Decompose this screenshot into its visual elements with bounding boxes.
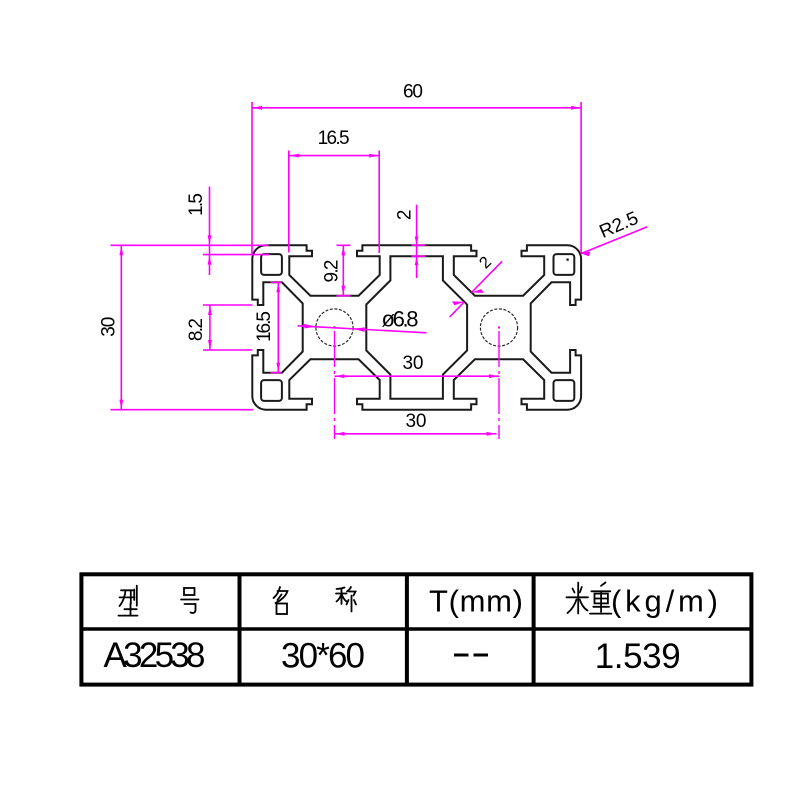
dim 16.5 top line [289, 155, 379, 157]
svg-text:2: 2 [395, 210, 416, 221]
table row2 dashes [454, 654, 488, 657]
svg-text:ø6.8: ø6.8 [382, 307, 419, 332]
arrow 30 left bottom [119, 400, 123, 409]
hanzi 称 [336, 587, 356, 612]
dim 1.5 line [209, 187, 211, 276]
hanzi 米 [567, 583, 589, 614]
corner cavity top-left [261, 254, 282, 275]
dim 8.2 line [209, 305, 211, 350]
hole 1 center dot [334, 327, 336, 329]
svg-text:16.5: 16.5 [254, 311, 275, 342]
svg-text:60: 60 [403, 82, 423, 103]
arrow 1.5 upper (outside above) [208, 235, 212, 244]
svg-text:30: 30 [406, 411, 427, 432]
profile outer boundary [252, 245, 581, 409]
hanzi 名 [274, 587, 288, 614]
ø6.8 leader line [298, 326, 427, 333]
arrow 2 top lower [415, 257, 419, 265]
arrow 60 right [571, 106, 580, 110]
hole 2 (ø6.8 right) [480, 309, 517, 346]
arrow 30 bottom left [335, 432, 344, 436]
dim 8.2 extension lower [203, 349, 253, 351]
svg-text:9.2: 9.2 [321, 260, 342, 283]
dim 9.2 ticks [337, 244, 351, 246]
svg-text:1.5: 1.5 [186, 193, 207, 216]
arrow R2.5 [581, 251, 590, 256]
dim 8.2 extension upper [203, 304, 253, 306]
dim 16.5 left extension ticks [271, 281, 282, 283]
hanzi 号 [181, 588, 199, 613]
arrow 16.5 left top [276, 283, 280, 292]
arrow 30 mid right [489, 374, 498, 378]
dim 60 extension right [580, 102, 582, 254]
svg-text:T(mm): T(mm) [429, 584, 523, 619]
R2.5 leader [581, 227, 647, 254]
corner cavity bottom-left [261, 380, 282, 401]
hanzi 重 [590, 583, 611, 614]
dim 16.5 top extension left [288, 151, 290, 253]
arrow 9.2 bottom [341, 286, 345, 295]
arrow 2 top upper [415, 237, 419, 245]
arrow 30 bottom right [487, 432, 496, 436]
hole1 vertical centerline [334, 331, 336, 439]
svg-text:16.5: 16.5 [318, 128, 350, 149]
dim 1.5 extension upper (shared with 30 left) [111, 244, 269, 246]
hole 1 (ø6.8 left) [316, 309, 353, 346]
arrowheads [119, 106, 590, 436]
hanzi 型 [119, 586, 138, 616]
dim 2 top ticks [412, 244, 426, 246]
table column separator 1 [238, 574, 242, 684]
arrow 30 mid left [335, 374, 344, 378]
hole2 vertical centerline [498, 331, 500, 439]
dim 16.5 left line [277, 282, 279, 372]
table outer border [81, 574, 751, 684]
dim 16.5 top extension right [378, 151, 380, 254]
arrow ø6.8 left (pointing right at circle) [304, 324, 316, 329]
svg-text:30: 30 [98, 317, 119, 337]
dim 9.2 line [342, 245, 344, 295]
R2.5 arc center dot top-right [567, 259, 569, 261]
arrow 9.2 top [341, 246, 345, 255]
hole 2 center dot [498, 327, 500, 329]
arrow 16.5 top right [369, 154, 378, 158]
arrow 30 left top [119, 246, 123, 255]
table column separator 2 [405, 574, 409, 684]
dim 60 extension left [251, 102, 253, 254]
arrow 2 diag upper [472, 289, 484, 293]
dim 30 left extension bottom [111, 409, 254, 411]
dim 2 top line [416, 205, 418, 278]
dim 30 bottom line [335, 433, 497, 435]
arrow 16.5 top left [289, 154, 298, 158]
svg-text:8.2: 8.2 [186, 318, 207, 341]
arrow 2 diag lower [452, 301, 464, 305]
dim 2 diag leader lines [450, 261, 503, 317]
arrow 60 left [253, 106, 262, 110]
svg-text:30: 30 [403, 353, 424, 374]
table column separator 3 [532, 574, 536, 684]
arrow ø6.8 right (pointing left at circle) [353, 327, 365, 332]
central octagon cavity with necks [366, 256, 467, 398]
arrow 8.2 bottom [208, 340, 212, 349]
dim 60 line [252, 107, 581, 109]
dim 30 left line [120, 245, 122, 409]
corner cavity bottom-right [554, 380, 575, 401]
svg-text:30*60: 30*60 [281, 637, 365, 676]
svg-text:1.539: 1.539 [595, 637, 681, 676]
TITLE TABLE [81, 574, 751, 684]
arrow 1.5 lower (outside below) [208, 255, 212, 264]
corner cavity top-right [554, 254, 575, 275]
DIMENSIONS [111, 102, 648, 439]
arrow 8.2 top [208, 306, 212, 315]
dim 30 mid line [335, 375, 500, 377]
arrow 16.5 left bottom [276, 363, 280, 372]
svg-text:A32538: A32538 [104, 636, 206, 675]
table middle horizontal line [81, 627, 751, 630]
dim 1.5 extension lower [203, 254, 269, 256]
